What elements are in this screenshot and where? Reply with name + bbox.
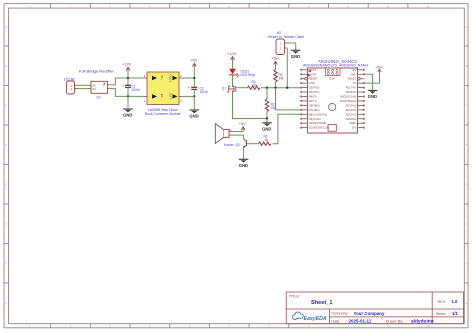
junction R4/sensor rail [274,87,276,89]
svg-text:EasyEDA: EasyEDA [304,316,327,322]
wire sensor rail branch down to Arduino D5 [276,88,301,110]
resistor R2 10k [265,99,276,112]
power flag +5V (speaker) [239,121,247,132]
svg-text:12V AC: 12V AC [64,78,77,82]
full bridge rectifier D1 [79,69,115,100]
capacitor C1 100uf [122,78,140,96]
capacitor C2 100uf [188,78,208,96]
resistor R4 10k [274,70,284,83]
svg-text:D8(CLKO/ICP1): D8(CLKO/ICP1) [309,113,327,116]
EasyEDA logo [292,312,326,322]
svg-text:F: F [5,222,7,226]
connector H2 Heater To Twisted Cable [268,31,304,55]
svg-text:H: H [5,302,7,306]
wire H2 pin2 down to sensor rail [286,48,288,88]
svg-text:F: F [465,222,467,226]
USB box [328,125,336,132]
svg-text:D9(OC1A): D9(OC1A) [309,118,321,121]
svg-text:100uf: 100uf [132,88,140,92]
resistor R1 100 [248,80,261,89]
wire module out+ to C2 rail [182,77,194,79]
transistor Q2 [224,139,247,148]
svg-text:10: 10 [387,4,391,8]
wire R4 bottom to sensor rail [275,82,277,88]
svg-text:GND: GND [123,113,132,118]
wire speaker - to Q2 collector [232,135,244,139]
node junction R1/R2 [266,87,268,89]
svg-text:IN+: IN+ [160,75,164,80]
pin arrow IN+ [152,76,157,80]
Arduino left pin labels [309,69,329,130]
svg-text:E: E [465,182,467,186]
ground GND (under R2) [262,119,272,132]
svg-text:VIN: VIN [352,69,356,72]
svg-text:5V: 5V [353,82,356,85]
ground GND (H2) [291,49,301,59]
ticks top [51,4,408,9]
svg-text:Sheet:: Sheet: [436,312,447,316]
svg-text:ADC6/A6: ADC6/A6 [346,91,357,94]
svg-text:+5V: +5V [190,58,198,63]
Arduino right pin labels [340,69,357,130]
Arduino left pins [301,70,308,128]
svg-text:GND: GND [368,94,377,99]
svg-text:GND: GND [189,114,198,119]
red arrow RX pin [308,74,311,77]
wire R3 to Arduino D6 [272,114,300,143]
wire Q2 emitter to GND [243,147,245,159]
svg-text:C: C [5,103,7,107]
ground GND (Q2 emitter) [239,158,249,168]
Arduino right pins [358,70,365,128]
wire H2 pin1 to GND [288,43,296,50]
svg-text:Q1: Q1 [222,86,227,90]
svg-text:ADC4/SDA/A4: ADC4/SDA/A4 [340,100,357,103]
svg-text:Full Bridge Rectifier: Full Bridge Rectifier [79,69,115,74]
svg-text:D: D [465,143,467,147]
svg-text:ARDUINONANOV03_ARDUINO_NANO: ARDUINONANOV03_ARDUINO_NANO [303,64,369,68]
wire node to R2 [266,88,268,99]
LED LED1 [229,69,255,78]
junction under R2 [266,117,268,119]
svg-text:H: H [465,302,467,306]
svg-text:D2(INT0): D2(INT0) [309,87,319,90]
pin arrow OUT- [173,94,178,98]
wire speaker + to +5V [232,131,243,133]
svg-text:D: D [5,143,7,147]
pin arrow OUT+ [173,76,178,80]
svg-text:11: 11 [426,324,429,328]
svg-text:D11(MOSI/OC2A): D11(MOSI/OC2A) [309,127,329,130]
svg-text:ADC1/A1: ADC1/A1 [346,113,357,116]
svg-text:+12V: +12V [227,51,237,56]
svg-text:AREF: AREF [349,122,356,125]
svg-text:GND: GND [291,54,300,59]
svg-text:IN-: IN- [160,94,164,98]
svg-text:+5V: +5V [375,64,383,69]
svg-text:Sheet_1: Sheet_1 [311,300,332,306]
svg-text:C: C [465,103,467,107]
svg-text:D3(INT1): D3(INT1) [309,91,319,94]
svg-text:REV:: REV: [438,300,447,304]
power flag +5V (R4 pullup) [271,56,279,70]
svg-text:Q2: Q2 [236,143,240,147]
svg-text:GND: GND [262,127,271,132]
Arduino U2 ARDUINO_NANO1 [303,59,369,133]
svg-text:E: E [5,182,7,186]
svg-text:AC: AC [92,87,96,91]
wire R1 to node and on to Arduino pin D2 [261,87,301,89]
svg-text:RESET: RESET [348,78,357,81]
wire Q1 gate to R1 [236,87,248,89]
svg-text:OUT-: OUT- [169,93,173,100]
svg-text:1/1: 1/1 [452,311,458,316]
svg-text:A: A [5,25,7,29]
resistor R3 1k [259,134,272,145]
title block [286,292,463,324]
svg-text:3V3: 3V3 [352,127,357,130]
svg-text:A: A [465,25,467,29]
buck module U1 LM2596 [144,72,182,116]
svg-text:G: G [465,261,467,265]
svg-text:+: + [188,86,190,90]
svg-text:+12V: +12V [122,62,132,67]
svg-text:D7(AIN1): D7(AIN1) [309,109,320,112]
wire Arduino GND pin to GND flag [364,74,372,89]
svg-text:ADC3/A3: ADC3/A3 [346,104,357,107]
svg-text:+5V: +5V [239,121,247,126]
red arrow TX pin [308,70,311,73]
svg-text:D1: D1 [97,96,101,100]
wire D1 - output to bottom rail [111,89,144,97]
svg-text:Date:: Date: [331,319,340,323]
wire Q1 source down and right to ground node [233,93,268,119]
speaker LS1 [215,124,232,144]
svg-text:G: G [5,261,7,265]
mosfet Q1 [227,86,236,93]
wire D1 + output to top rail [111,78,144,85]
svg-text:B: B [465,64,467,68]
svg-text:+5V: +5V [271,56,279,61]
wire P1 to D1 (two AC lines) [78,85,88,88]
ticks bottom [51,324,289,328]
svg-text:GND: GND [239,163,248,168]
wire Q2 base to R3 [247,143,259,145]
svg-text:ADC5/SCL/A5: ADC5/SCL/A5 [340,96,357,99]
ground GND (Arduino right) [368,90,378,100]
svg-text:-: - [103,88,104,92]
junction C2 bottom [193,95,195,97]
wire module out- to C2 rail [182,95,194,97]
svg-text:Company:: Company: [331,312,348,316]
power flag +12V (over C1) [122,62,132,79]
ground GND (under C1) [123,96,133,117]
svg-text:buzzer: buzzer [224,143,235,147]
ticks right [464,46,468,283]
svg-text:TITLE:: TITLE: [289,295,300,299]
svg-text:+: + [122,84,124,88]
junction C1 bottom [127,95,129,97]
svg-text:GND: GND [350,73,356,76]
svg-text:2025-01-11: 2025-01-11 [349,318,372,323]
svg-text:D10(SS/OC1B): D10(SS/OC1B) [309,122,326,125]
svg-text:RESET: RESET [309,78,318,81]
power flag +12V (LED branch) [227,51,237,69]
svg-text:Buck Converter Module: Buck Converter Module [145,112,181,116]
svg-text:ADC7/A7: ADC7/A7 [346,87,357,90]
wire LED to Q1 drain [232,75,234,86]
svg-text:aldyduino: aldyduino [411,318,434,324]
svg-text:1.0: 1.0 [452,299,458,304]
ticks left [4,46,9,283]
svg-text:OUT+: OUT+ [169,74,173,82]
svg-text:10: 10 [387,324,391,328]
connector P1 12V AC [64,78,79,95]
svg-text:Your Company: Your Company [354,311,385,316]
svg-text:D0/RX: D0/RX [309,73,317,76]
svg-text:11: 11 [426,4,429,8]
svg-text:ADC2/A2: ADC2/A2 [346,109,357,112]
svg-text:ADC0/A0: ADC0/A0 [346,118,357,121]
power flag +5V (Arduino right) [375,64,383,72]
ground GND (under C2) [189,96,199,118]
svg-text:LED Strip: LED Strip [241,73,256,77]
svg-text:GND: GND [309,82,315,85]
red circle RESET right pin [358,77,361,80]
mounting circle [329,103,336,110]
power flag +5V (over C2) [190,58,198,79]
svg-text:100uf: 100uf [200,90,208,94]
svg-text:D5(T1): D5(T1) [309,100,317,103]
junction C1 top [127,77,129,79]
svg-text:Drawn By:: Drawn By: [386,319,404,323]
svg-text:B: B [5,64,7,68]
wire R2 bottom to ground node [266,112,268,119]
ICSP header [326,68,341,76]
junction C2 top [193,77,195,79]
wire Arduino 5V pin to +5V flag [364,72,379,83]
svg-text:10k: 10k [279,77,285,81]
svg-text:Heater To Twisted Cable: Heater To Twisted Cable [268,35,304,39]
junction H2/sensor rail [286,87,288,89]
svg-text:D6(AIN0): D6(AIN0) [309,104,320,107]
pin arrow IN- [152,94,157,98]
svg-text:ICSP: ICSP [329,77,335,81]
svg-text:D4(T0): D4(T0) [309,96,317,99]
